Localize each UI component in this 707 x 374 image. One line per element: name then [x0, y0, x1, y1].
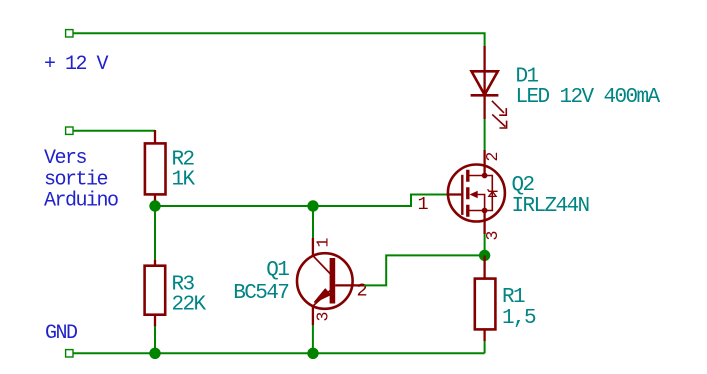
wire R2 to node A	[154, 201, 156, 206]
wire Q1 emitter to GND rail	[312, 325, 314, 353]
wire node B to Q2 gate	[313, 195, 447, 207]
wire node A to R3	[154, 206, 156, 260]
svg-text:LED 12V 400mA: LED 12V 400mA	[516, 86, 661, 109]
junction GND-Q1	[307, 348, 318, 359]
svg-text:Vers: Vers	[44, 147, 87, 170]
resistor R3	[145, 260, 207, 327]
svg-text:1,5: 1,5	[502, 307, 536, 330]
node A junction	[149, 200, 160, 211]
node C junction	[479, 250, 490, 261]
svg-text:Q2: Q2	[512, 174, 535, 197]
svg-text:+ 12 V: + 12 V	[44, 53, 109, 76]
svg-text:GND: GND	[45, 322, 77, 345]
connector pin GND	[66, 350, 73, 357]
svg-text:R1: R1	[502, 286, 525, 309]
transistor Q1	[233, 238, 367, 326]
svg-text:BC547: BC547	[233, 282, 288, 305]
diode D1	[471, 46, 661, 128]
wire GND rail	[73, 352, 485, 354]
svg-text:sortie: sortie	[44, 168, 108, 191]
connector pin Arduino	[66, 127, 73, 134]
label Vers sortie Arduino	[44, 147, 118, 212]
wire R3 to GND rail	[154, 326, 156, 353]
label GND	[45, 322, 77, 345]
resistor R1	[475, 255, 536, 341]
label +12V	[44, 53, 109, 76]
svg-text:2: 2	[357, 281, 368, 302]
svg-text:1: 1	[418, 194, 429, 215]
wire D1 to Q2 drain	[484, 119, 486, 150]
svg-text:Q1: Q1	[266, 259, 289, 282]
wire Arduino to R2	[73, 130, 155, 132]
svg-text:Arduino: Arduino	[44, 189, 118, 212]
connector pin +12V	[66, 30, 73, 37]
wire top rail	[73, 33, 485, 46]
svg-text:2: 2	[483, 152, 502, 162]
junction GND-R3	[149, 348, 160, 359]
svg-text:22K: 22K	[172, 294, 207, 317]
wire node B to Q1 collector	[312, 206, 314, 238]
svg-text:3: 3	[483, 231, 502, 241]
wire Q2 source to node C	[484, 234, 486, 255]
svg-text:1K: 1K	[172, 169, 196, 192]
svg-text:1: 1	[313, 238, 332, 248]
resistor R2	[145, 130, 196, 201]
svg-text:IRLZ44N: IRLZ44N	[512, 195, 589, 218]
wire Q1 base to node C	[364, 255, 485, 285]
node B junction	[307, 200, 318, 211]
wire R1 to GND rail	[484, 341, 486, 353]
svg-text:3: 3	[314, 312, 333, 322]
wire node A to node B	[155, 205, 313, 207]
transistor Q2	[418, 150, 589, 241]
